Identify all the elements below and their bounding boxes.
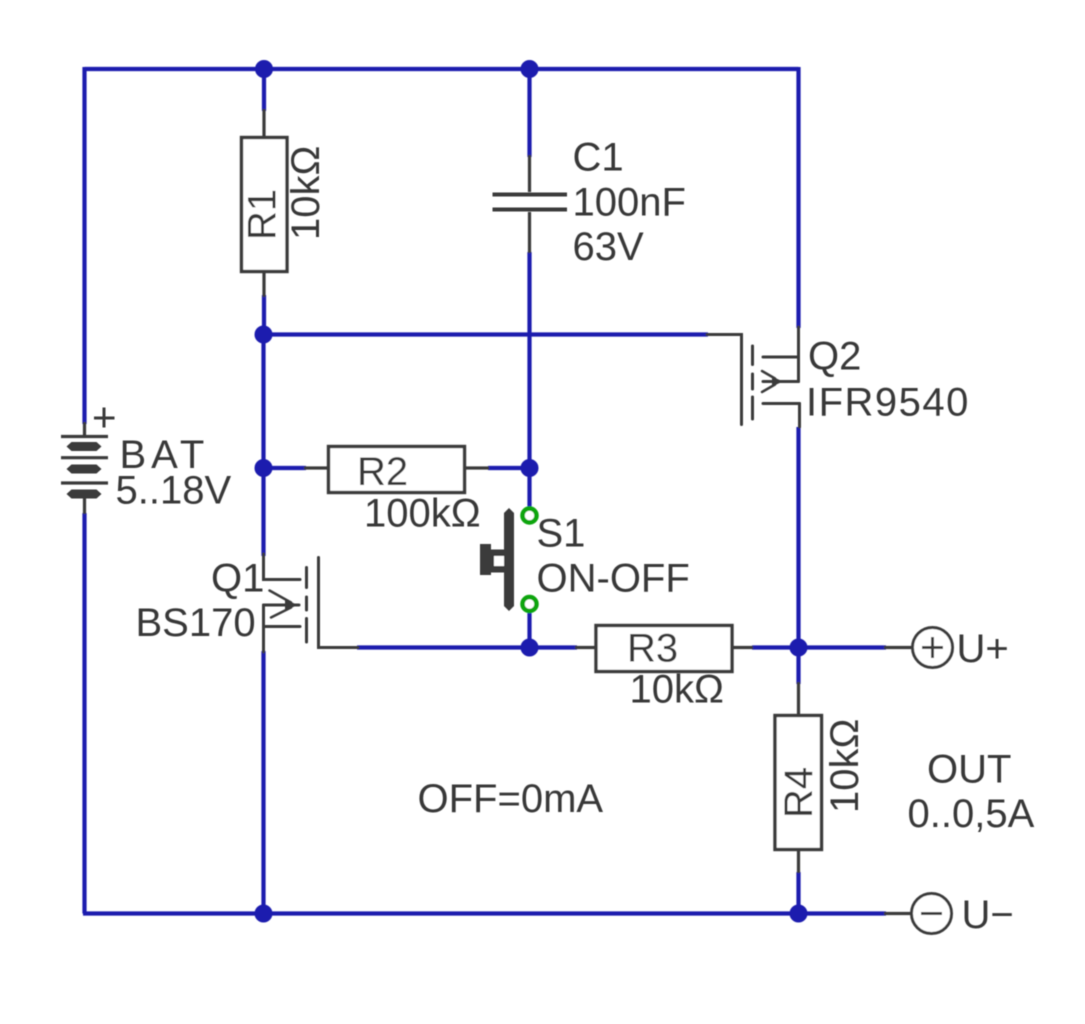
svg-text:R4: R4 <box>777 767 821 818</box>
Q2 arrowhead <box>772 377 783 387</box>
wire right rail upper <box>796 67 800 328</box>
junction gate rail <box>255 326 273 344</box>
Q2 channel segments <box>751 346 754 365</box>
Q2 drain pin vertical <box>798 404 801 428</box>
resistor R2 <box>329 447 465 493</box>
svg-text:C1: C1 <box>573 136 624 180</box>
transistor Q2 <box>707 327 800 427</box>
wire R2 left <box>264 466 307 470</box>
svg-text:100kΩ: 100kΩ <box>364 492 481 536</box>
wire C1 bottom pin <box>528 212 531 253</box>
svg-text:Q2: Q2 <box>808 335 861 379</box>
wire R3 right pin <box>730 646 753 649</box>
S1 plunger bar <box>504 508 514 611</box>
battery plate long 2 <box>61 456 108 459</box>
Q2 source pin vertical <box>797 327 800 382</box>
svg-text:S1: S1 <box>537 512 586 556</box>
svg-text:IFR9540: IFR9540 <box>806 381 970 425</box>
wire bottom to U- terminal <box>799 911 887 915</box>
resistor R1 <box>242 138 288 272</box>
wire top rail <box>85 67 799 71</box>
wire R2 right pin <box>463 466 489 469</box>
junction top C1 <box>521 60 539 78</box>
svg-text:OUT: OUT <box>927 748 1011 792</box>
svg-text:5..18V: 5..18V <box>116 469 232 513</box>
wire R3 left pin <box>575 646 598 649</box>
junction bottom R4 <box>790 905 808 923</box>
battery plate thick 3 <box>67 490 102 499</box>
junction top R1 <box>255 60 273 78</box>
battery plate long 1 <box>61 435 108 438</box>
wire battery bottom pin <box>83 495 86 514</box>
junction bottom Q1 <box>255 905 273 923</box>
wire R1 bottom pin <box>262 271 265 297</box>
wire bottom rail <box>83 911 799 915</box>
svg-text:Q1: Q1 <box>211 557 264 601</box>
battery plate long 3 <box>61 481 108 484</box>
svg-text:100nF: 100nF <box>573 181 686 225</box>
Q1 source-bulk vertical <box>262 605 265 652</box>
wire gate rail horizontal <box>264 332 709 336</box>
svg-text:U−: U− <box>962 893 1014 937</box>
Q1 channel segments <box>305 568 308 588</box>
battery plate thick 1 <box>67 442 102 451</box>
Q1 gate bar and lead <box>319 558 359 648</box>
battery BAT <box>61 408 115 499</box>
wire battery top pin <box>83 422 86 436</box>
wire Q1 source vertical <box>261 651 265 915</box>
wire switch bottom to junction <box>527 611 531 649</box>
svg-text:R3: R3 <box>627 627 678 671</box>
svg-text:U+: U+ <box>957 627 1009 671</box>
wire R2 right <box>488 466 531 470</box>
wire gate to R3 <box>357 645 577 649</box>
wire R4 top pin <box>797 682 800 717</box>
wire right rail middle <box>796 427 800 684</box>
junction R3 right <box>790 639 808 657</box>
battery plate thick 2 <box>67 465 102 474</box>
svg-text:10kΩ: 10kΩ <box>823 719 867 813</box>
svg-text:ON-OFF: ON-OFF <box>537 557 690 601</box>
Q1 drain lead <box>264 554 301 580</box>
wire R1 bottom to gate rail <box>262 295 266 335</box>
Q2 source bar top <box>763 356 799 359</box>
transistor Q1 <box>264 554 359 652</box>
svg-text:R1: R1 <box>241 189 285 240</box>
terminal U- <box>912 894 952 934</box>
junction R2 left <box>255 459 273 477</box>
Q2 gate lead and bar <box>707 335 742 425</box>
Q2 arrow wings <box>762 371 775 392</box>
capacitor C1 <box>493 195 568 210</box>
wire to U+ terminal <box>799 645 887 649</box>
Q1 arrow wings <box>270 591 292 618</box>
Q1 bulk bar <box>264 604 300 607</box>
svg-text:0..0,5A: 0..0,5A <box>908 792 1035 836</box>
svg-text:R2: R2 <box>357 450 408 494</box>
wire R2 left pin <box>304 466 330 469</box>
junction R2 right <box>521 459 539 477</box>
Q1 arrowhead <box>285 600 298 611</box>
battery plus sign <box>94 408 115 428</box>
resistor R4 <box>775 716 822 850</box>
Q2 bulk bar <box>763 380 799 383</box>
svg-text:BS170: BS170 <box>136 601 256 645</box>
wire R4 bottom pin <box>797 848 800 873</box>
S1 contact top <box>523 509 537 523</box>
wire C1 bottom to switch <box>527 252 531 509</box>
wire Q1 drain vertical <box>261 335 265 557</box>
Q1 source bar <box>264 625 301 628</box>
resistor R3 <box>596 626 732 672</box>
wire U- lead <box>884 912 911 915</box>
svg-text:10kΩ: 10kΩ <box>284 146 328 240</box>
wire right rail lower <box>796 872 800 915</box>
wire C1 top pin <box>528 155 531 192</box>
S1 button ring <box>488 550 511 573</box>
wire left rail lower <box>82 513 86 914</box>
S1 button stem <box>480 544 491 575</box>
Q2 drain bar bottom <box>763 402 800 405</box>
terminal U+ <box>913 628 953 668</box>
wire R1 top stub <box>262 69 266 111</box>
wire C1 top <box>527 69 531 157</box>
svg-text:63V: 63V <box>573 225 644 269</box>
svg-text:10kΩ: 10kΩ <box>630 668 724 712</box>
wire R1 top pin <box>262 109 265 138</box>
svg-text:OFF=0mA: OFF=0mA <box>418 777 604 821</box>
wire R3 to right rail <box>752 645 799 649</box>
wire left rail upper <box>82 67 86 424</box>
junction R3 left <box>521 639 539 657</box>
switch S1 <box>480 508 537 611</box>
S1 contact bottom <box>523 597 537 611</box>
wire U+ lead <box>884 646 912 649</box>
